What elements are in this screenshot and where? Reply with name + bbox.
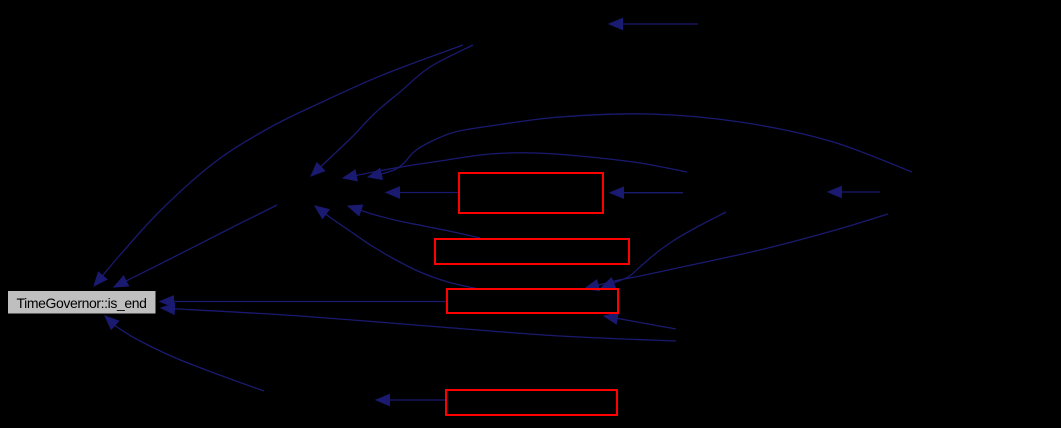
edge N1 to is_end [114, 205, 277, 287]
node boxA (truncated caller) [459, 173, 603, 213]
edge mid node to boxA [610, 187, 683, 198]
edge node4 to boxC [604, 313, 676, 329]
edge top-right horizontal [609, 18, 698, 29]
edge far node to boxC [585, 214, 888, 291]
edge mid node to N1 [343, 153, 687, 181]
edge right node to N1 upper [368, 114, 912, 180]
edge boxA to N1 [386, 187, 459, 198]
edge mid node to boxC [601, 212, 726, 288]
node boxD (truncated caller) [446, 390, 617, 415]
node TimeGovernor::is_end (current) [8, 291, 157, 315]
edge node4 to is_end [161, 303, 676, 341]
node boxB (truncated caller) [435, 239, 629, 264]
edge boxD to node5 [376, 394, 446, 405]
edge boxB to N1 lower [348, 205, 480, 238]
edge node5 to is_end [105, 316, 264, 391]
edge boxC to N1 lower [315, 206, 478, 289]
edge boxC to is_end [160, 296, 447, 307]
edge main to N1 [311, 45, 473, 176]
edge right node to mid node [828, 186, 880, 197]
node boxC (truncated caller) [447, 289, 618, 313]
edge main to is_end [94, 45, 463, 286]
svg-text:TimeGovernor::is_end: TimeGovernor::is_end [17, 295, 147, 311]
